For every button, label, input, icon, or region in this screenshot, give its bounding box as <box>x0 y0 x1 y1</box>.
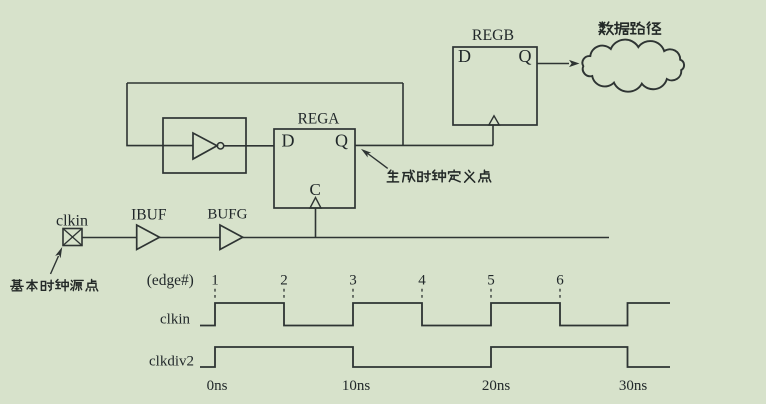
REGB clock triangle <box>489 116 500 125</box>
svg-text:IBUF: IBUF <box>131 207 167 224</box>
buffer BUFG triangle <box>220 225 243 250</box>
label basic clock source point (CJK) <box>11 280 98 291</box>
svg-text:1: 1 <box>211 273 219 289</box>
label generated clock defining point (CJK) <box>387 170 491 182</box>
svg-text:30ns: 30ns <box>619 378 648 394</box>
waveform clkdiv2 <box>200 347 670 367</box>
inverter U1 box <box>163 118 246 173</box>
svg-text:D: D <box>282 131 295 151</box>
svg-text:clkin: clkin <box>56 213 88 230</box>
wire REGB Q to cloud with arrowhead <box>537 63 569 65</box>
wire inverter output to REGA D <box>224 145 274 147</box>
buffer IBUF triangle <box>137 225 160 250</box>
svg-text:clkin: clkin <box>160 312 190 328</box>
flip-flop REGB box <box>453 47 537 125</box>
arrow basic clock source point <box>51 256 59 274</box>
svg-text:5: 5 <box>487 273 495 289</box>
svg-text:4: 4 <box>418 273 426 289</box>
wire REGB clock vertical <box>492 125 494 145</box>
REGA clock triangle <box>310 198 321 209</box>
svg-text:10ns: 10ns <box>342 378 371 394</box>
flip-flop REGA box <box>274 129 355 208</box>
svg-text:BUFG: BUFG <box>207 207 247 223</box>
wire REGA C input <box>315 208 317 238</box>
edge marker dashed lines <box>215 289 560 301</box>
svg-text:D: D <box>458 46 471 66</box>
svg-text:Q: Q <box>335 131 348 151</box>
inverter U1 triangle <box>193 133 217 159</box>
wire feedback top <box>127 82 403 84</box>
svg-text:6: 6 <box>556 273 564 289</box>
cloud data path <box>582 40 684 92</box>
waveform clkin <box>200 303 670 326</box>
wire pad to IBUF <box>82 237 137 239</box>
svg-text:(edge#): (edge#) <box>147 272 194 289</box>
svg-text:3: 3 <box>349 273 357 289</box>
wire IBUF to BUFG <box>160 237 221 239</box>
pad clkin symbol <box>63 229 82 246</box>
wire main clock line <box>243 237 609 239</box>
svg-text:Q: Q <box>519 46 532 66</box>
svg-text:REGA: REGA <box>298 111 340 128</box>
svg-text:clkdiv2: clkdiv2 <box>149 354 194 370</box>
svg-text:C: C <box>310 180 321 199</box>
svg-text:2: 2 <box>280 273 288 289</box>
svg-text:20ns: 20ns <box>482 378 511 394</box>
inverter U1 bubble <box>217 143 223 149</box>
edge numbers 1-6 <box>211 273 564 289</box>
svg-text:0ns: 0ns <box>207 378 228 394</box>
svg-text:REGB: REGB <box>472 27 514 44</box>
label generated clock defining point arrow <box>365 152 388 169</box>
wire feedback right vertical <box>402 83 404 145</box>
wire feedback left <box>127 83 193 146</box>
wire REGA Q output <box>355 144 493 146</box>
label data path (CJK: shu ju lu jing) <box>599 22 661 34</box>
